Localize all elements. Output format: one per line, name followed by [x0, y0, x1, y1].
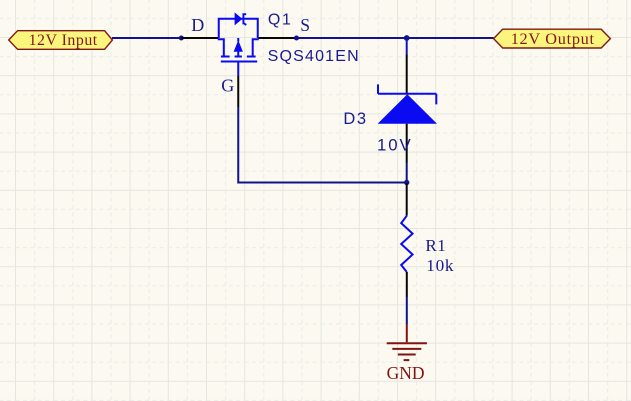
svg-text:D3: D3	[343, 110, 367, 128]
wire: D3 anode to junction	[406, 163, 408, 184]
svg-text:D: D	[191, 15, 204, 35]
right source contact	[247, 39, 259, 56]
wire stub from top junction to D3	[406, 39, 408, 55]
pin 2 of R1	[406, 272, 408, 297]
svg-text:S: S	[300, 15, 310, 35]
transistor Q1 body	[218, 13, 259, 75]
svg-text:12V Output: 12V Output	[511, 29, 595, 48]
bulk arrow	[235, 38, 242, 57]
pin S of Q1	[258, 37, 297, 39]
pin G of Q1	[237, 75, 239, 107]
left drain contact	[218, 39, 230, 56]
svg-text:Q1: Q1	[268, 11, 293, 28]
svg-text:SQS401EN: SQS401EN	[268, 48, 360, 65]
svg-text:G: G	[221, 75, 234, 95]
wire: gate down and right to junction	[238, 107, 406, 183]
body diode loop	[219, 19, 258, 38]
wire: left port to node D	[112, 37, 181, 39]
svg-text:R1: R1	[425, 236, 446, 255]
wire: R1 to GND	[406, 297, 408, 324]
port 12V Output	[494, 29, 611, 48]
svg-text:10k: 10k	[426, 256, 454, 275]
svg-text:12V Input: 12V Input	[29, 32, 98, 49]
body diode triangle	[235, 13, 242, 24]
zener diode D3	[378, 84, 437, 123]
junction node above D3	[404, 35, 410, 41]
junction node below D3	[404, 180, 409, 185]
svg-text:10V: 10V	[377, 136, 413, 155]
resistor R1 zigzag	[401, 216, 412, 272]
wire: source to right port	[297, 37, 494, 39]
body diode zener bar	[243, 13, 246, 25]
node at source pin tip	[294, 36, 299, 41]
gate plate	[221, 61, 257, 63]
svg-text:GND: GND	[387, 363, 425, 383]
node at drain pin tip	[179, 36, 184, 41]
pin D of Q1	[181, 37, 219, 39]
ground power symbol	[387, 324, 427, 360]
pin 1 of R1	[406, 183, 408, 216]
gate lead	[237, 63, 239, 76]
pin 1 (cathode) of D3	[406, 55, 408, 95]
port 12V Input	[9, 31, 113, 50]
pin 2 (anode) of D3	[406, 124, 408, 163]
